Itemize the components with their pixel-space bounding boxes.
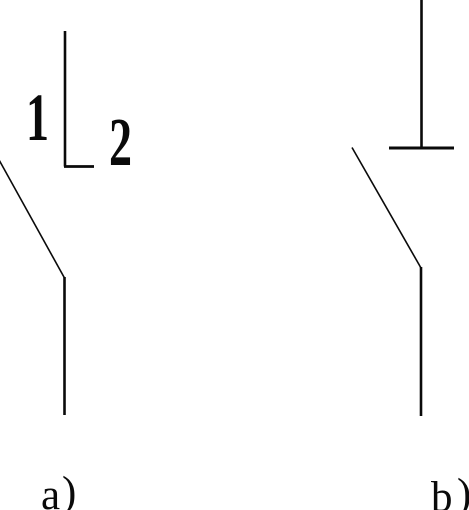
svg-text:a: a: [41, 472, 60, 510]
svg-text:b: b: [431, 474, 453, 510]
svg-text:): ): [62, 469, 76, 510]
switch contact a): fixed terminal 1 lead (vertical wire): [64, 31, 67, 167]
svg-text:2: 2: [109, 104, 132, 180]
switch contact a): terminal 1 bent foot (horizontal): [64, 165, 94, 168]
switch blade (diagonal contact arm): [0, 158, 65, 278]
switch contact a): terminal 2 lead (lower vertical wire): [63, 277, 66, 415]
svg-text:): ): [457, 471, 469, 510]
switch contact b): upper terminal lead (vertical wire): [420, 0, 423, 148]
switch blade (diagonal contact arm): [352, 148, 421, 269]
switch contact b): lower terminal lead (vertical wire): [420, 267, 423, 416]
svg-text:1: 1: [26, 79, 49, 155]
switch contact b): fixed contact bar (horizontal): [389, 147, 454, 150]
